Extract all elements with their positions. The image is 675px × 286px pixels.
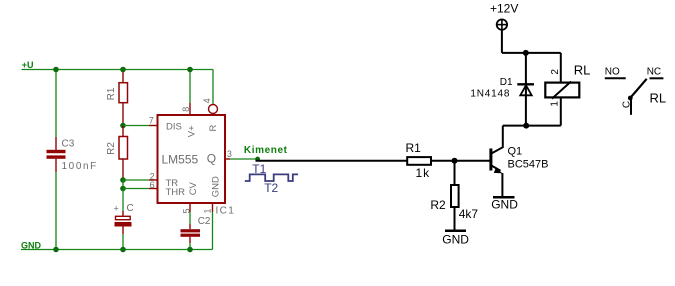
svg-text:LM555: LM555 (162, 153, 199, 167)
pin 1 GND stub (212, 203, 214, 212)
contact moving arm (630, 79, 647, 99)
relay coil RL (545, 82, 579, 99)
svg-text:THR: THR (166, 187, 186, 198)
pin 3 stub (225, 158, 230, 160)
svg-text:4k7: 4k7 (459, 207, 479, 221)
transistor Q1 emitter (492, 166, 503, 197)
wire C3 to GND rail (55, 172, 57, 250)
svg-text:3: 3 (227, 149, 232, 159)
pin 7 DIS stub (149, 125, 158, 127)
svg-text:RL: RL (574, 63, 591, 78)
svg-text:1k: 1k (416, 166, 431, 180)
svg-text:R: R (208, 124, 219, 131)
svg-text:2: 2 (550, 69, 561, 75)
svg-text:NO: NO (605, 67, 620, 78)
svg-text:Q1: Q1 (508, 146, 523, 158)
pin 8 stub (189, 103, 191, 115)
svg-text:BC547B: BC547B (508, 159, 549, 171)
relay coil pin 1 wire (560, 98, 562, 126)
wire junction to R2 (454, 161, 456, 185)
wire THR net (123, 188, 149, 190)
wire pin 3 output net (230, 158, 258, 160)
svg-text:+U: +U (22, 60, 34, 70)
contact common terminal (630, 98, 632, 115)
svg-text:DIS: DIS (166, 121, 182, 132)
junction +U/pin8 (187, 67, 193, 73)
resistor R2 (pulldown) (451, 185, 459, 207)
capacitor C3 (47, 137, 66, 172)
pin 2 TR stub (149, 179, 158, 181)
svg-text:C: C (127, 203, 134, 214)
svg-text:C2: C2 (198, 216, 211, 227)
junction base/R2 (452, 158, 458, 164)
power symbol +12V (497, 19, 507, 29)
wire THR junction down to C1 (122, 189, 124, 212)
power rail +U (22, 69, 214, 71)
junction R2/TR (120, 177, 126, 183)
svg-text:V+: V+ (187, 125, 198, 137)
svg-text:D1: D1 (500, 77, 513, 88)
svg-text:Kimenet: Kimenet (244, 145, 288, 156)
wire between junctions (122, 180, 124, 189)
transistor Q1 collector (492, 126, 503, 154)
svg-text:C: C (622, 101, 633, 108)
capacitor C1 (electrolytic) (115, 211, 132, 234)
svg-text:6: 6 (150, 180, 155, 190)
svg-text:IC1: IC1 (216, 206, 236, 217)
svg-text:5: 5 (181, 208, 191, 213)
ground bar under Q1 (493, 196, 515, 199)
resistor R2 (timing) (119, 126, 128, 181)
wire +U rail to R1 (122, 70, 124, 83)
contact terminal NO (605, 77, 626, 79)
junction THR (120, 186, 126, 192)
wire C1 to GND rail (122, 234, 124, 250)
diode D1 (517, 53, 534, 126)
junction +U/R1 (120, 67, 126, 73)
junction GND/C3 (53, 247, 59, 253)
svg-text:4: 4 (202, 98, 212, 103)
wire R1 to base (431, 160, 490, 162)
wire +12V horizontal (502, 52, 561, 54)
svg-text:100nF: 100nF (62, 161, 98, 172)
junction Kimenet (255, 157, 260, 162)
pin 6 THR stub (149, 188, 158, 190)
svg-text:R1: R1 (106, 87, 117, 100)
wire R2 to ground (454, 207, 456, 231)
svg-text:8: 8 (181, 107, 191, 112)
op-amp/IC body IC1 LM555 (158, 115, 226, 203)
junction R1/DIS (120, 123, 126, 129)
wire +U rail to pin 4 (212, 70, 214, 105)
svg-text:R2: R2 (106, 142, 117, 155)
svg-text:+: + (114, 204, 119, 214)
pin 8 V+ wire from rail (189, 70, 191, 104)
junction GND/C2 (187, 247, 193, 253)
wire TR net (123, 179, 149, 181)
wire +U rail to C3 (55, 70, 57, 138)
junction +12V/diode (523, 50, 529, 56)
resistor R1 (timing) (119, 83, 128, 126)
svg-text:7: 7 (149, 115, 154, 125)
wire output to R1 (256, 160, 408, 162)
pin 5 CV stub and wire to C2 (189, 203, 191, 212)
wire DIS net (123, 125, 149, 127)
junction collector/diode (523, 123, 529, 129)
svg-text:GND: GND (491, 198, 518, 212)
svg-text:NC: NC (647, 67, 661, 78)
resistor R1 (base) (407, 157, 431, 165)
wire collector to relay net (503, 125, 561, 127)
svg-text:T1: T1 (252, 162, 266, 176)
wire +12V down (501, 30, 503, 53)
svg-text:+12V: +12V (490, 2, 518, 16)
contact terminal NC (650, 77, 664, 79)
junction +U/C3 (53, 67, 59, 73)
svg-text:1: 1 (203, 208, 213, 213)
svg-text:T2: T2 (264, 181, 278, 195)
svg-text:R2: R2 (430, 198, 446, 212)
svg-text:R1: R1 (406, 141, 422, 155)
relay coil pin 2 wire (560, 53, 562, 82)
ground rail GND (21, 249, 213, 251)
contact pivot (628, 96, 633, 101)
svg-text:GND: GND (442, 232, 469, 246)
svg-text:GND: GND (210, 176, 221, 197)
svg-text:RL: RL (650, 91, 667, 106)
wire C2 to GND rail (189, 243, 191, 250)
svg-text:GND: GND (21, 241, 42, 251)
svg-text:C3: C3 (62, 139, 75, 150)
pin 4 inversion bubble (209, 105, 218, 114)
svg-text:1: 1 (549, 101, 560, 107)
wire pin 1 to GND rail (212, 212, 214, 250)
ground bar under R2 (445, 229, 466, 232)
capacitor C2 (181, 224, 201, 243)
svg-text:Q: Q (207, 151, 216, 165)
waveform sketch (245, 174, 298, 181)
svg-text:1N4148: 1N4148 (470, 88, 510, 99)
svg-text:CV: CV (188, 181, 199, 195)
junction GND/C1 (120, 247, 126, 253)
transistor Q1 base bar (489, 149, 492, 171)
